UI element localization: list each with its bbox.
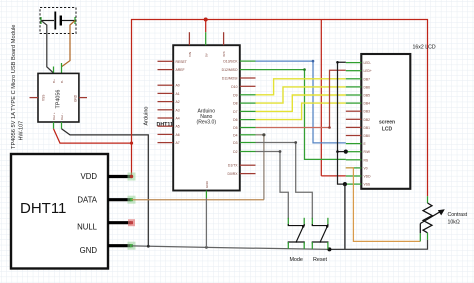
svg-text:Out -: Out -	[60, 113, 64, 120]
svg-text:screen: screen	[379, 119, 395, 125]
wire battery- to TP4056 B- (orange)	[62, 21, 76, 67]
wire pot bottom to ground bus (black)	[329, 240, 427, 250]
pushbutton S1 Mode	[288, 218, 304, 249]
wire battery+ to TP4056 B+ (black)	[41, 21, 54, 74]
svg-text:Out +: Out +	[52, 112, 56, 120]
wire LCD LED- to ground rail (black)	[336, 61, 346, 184]
label Reset	[313, 257, 328, 263]
svg-text:D2: D2	[233, 150, 237, 154]
label Contrast 10k	[448, 212, 468, 226]
pins U4 left leads	[346, 61, 372, 187]
wire arduino GND to ground bus (grey)	[205, 198, 207, 247]
svg-text:V0: V0	[364, 166, 368, 170]
label 16x2 LCD	[413, 45, 436, 51]
pushbutton S2 Reset	[312, 218, 328, 249]
svg-text:B-: B-	[60, 80, 64, 83]
label DHT11 (part label near A6)	[157, 122, 174, 128]
display U4 16x2 LCD	[361, 54, 410, 189]
module label text TP4056	[11, 25, 24, 149]
svg-text:D13/SCK: D13/SCK	[223, 60, 238, 64]
svg-text:VSS: VSS	[364, 183, 371, 187]
node DHT11 GND (green pad)	[128, 242, 136, 250]
node DHT11 VDD (green pad)	[128, 173, 136, 181]
svg-text:RS: RS	[364, 158, 369, 162]
junction LCD VSS (black dot)	[343, 182, 347, 249]
svg-text:D9: D9	[233, 93, 237, 97]
potentiometer R1 contrast 10k	[420, 196, 445, 240]
wire TP4056 Out- to ground (black)	[62, 129, 149, 246]
svg-text:B+: B+	[52, 79, 56, 83]
label Mode	[289, 257, 303, 263]
node DHT11 DATA (green pad)	[128, 196, 136, 204]
svg-text:(Rev3.0): (Rev3.0)	[197, 120, 217, 126]
svg-text:TP4056: TP4056	[56, 90, 62, 109]
svg-text:A4: A4	[176, 117, 180, 121]
svg-text:A5: A5	[176, 125, 180, 129]
junction TP4056 Out- / DHT11 GND	[147, 245, 150, 248]
wire DHT11 DATA to Arduino D4 (orange/brown)	[132, 133, 266, 200]
svg-text:Contrast: Contrast	[448, 212, 468, 218]
svg-text:D12/MISO: D12/MISO	[222, 68, 238, 72]
svg-text:D5: D5	[233, 126, 237, 130]
ground bus bottom (grey)	[132, 246, 330, 250]
svg-text:D8: D8	[233, 102, 237, 106]
svg-text:LED+: LED+	[364, 69, 372, 73]
svg-text:D10: D10	[231, 85, 237, 89]
pin U1 3V3 (top)	[222, 32, 226, 57]
wire D3 to Reset switch (grey)	[256, 141, 313, 219]
junction VCC/DHT11 VDD (red dot)	[130, 142, 133, 145]
svg-text:A1: A1	[176, 92, 180, 96]
svg-text:3V3: 3V3	[222, 51, 226, 57]
svg-text:VSS: VSS	[42, 95, 46, 101]
svg-text:A7: A7	[176, 141, 180, 145]
svg-text:10kΩ: 10kΩ	[448, 220, 460, 226]
battery BT1	[40, 8, 76, 34]
pin U1 VIN (top)	[188, 32, 192, 57]
svg-text:D11/MOSI: D11/MOSI	[222, 77, 238, 81]
svg-text:A0: A0	[176, 84, 180, 88]
junction arduino GND / ground bus	[205, 246, 208, 249]
sensor U3 DHT11	[11, 154, 132, 269]
pin U1 GND (bottom, connected)	[205, 180, 209, 198]
svg-text:DB5: DB5	[364, 94, 371, 98]
svg-text:DB3: DB3	[364, 110, 371, 114]
svg-text:DB7: DB7	[364, 77, 371, 81]
svg-text:RESET: RESET	[176, 60, 187, 64]
svg-text:DB1: DB1	[364, 126, 371, 130]
svg-text:DB4: DB4	[364, 102, 371, 106]
svg-text:A6: A6	[176, 133, 180, 137]
svg-text:Mode: Mode	[289, 257, 303, 263]
svg-text:LCD: LCD	[382, 126, 393, 132]
svg-text:D1/TX: D1/TX	[228, 164, 238, 168]
svg-text:DB2: DB2	[364, 118, 371, 122]
wire D12 to LCD RS (green)	[256, 68, 346, 159]
svg-text:DHT11: DHT11	[20, 200, 66, 217]
svg-text:R/W: R/W	[364, 150, 371, 154]
power bus 5V (red)	[132, 20, 428, 197]
svg-text:TP4056 5V 1A TYPE C Micro USB: TP4056 5V 1A TYPE C Micro USB Board Modu…	[11, 25, 17, 149]
charger module U2 TP4056	[30, 63, 88, 129]
wire D5 to LCD LED+ (salmon red)	[256, 70, 346, 129]
wire D7 to LCD DB5 (yellow)	[256, 95, 346, 111]
svg-text:HW-107: HW-107	[18, 121, 24, 141]
junction 5V/arduino (red dot)	[204, 18, 208, 22]
pins U1 right leads	[222, 60, 256, 177]
svg-text:Reset: Reset	[313, 257, 328, 263]
svg-text:16x2 LCD: 16x2 LCD	[413, 45, 436, 51]
svg-text:GND: GND	[80, 246, 98, 255]
svg-text:NULL: NULL	[77, 223, 98, 232]
junction ground bus (black dot)	[327, 247, 331, 251]
svg-text:Arduino: Arduino	[144, 107, 150, 126]
svg-text:VDD: VDD	[364, 175, 372, 179]
svg-text:D7: D7	[233, 110, 237, 114]
svg-text:DB0: DB0	[364, 134, 371, 138]
svg-text:A2: A2	[176, 100, 180, 104]
svg-text:LED-: LED-	[364, 61, 372, 65]
svg-text:AREF: AREF	[176, 68, 185, 72]
pins U1 left RESET AREF A0-A7 (maroon stubs)	[158, 60, 187, 145]
svg-text:D4: D4	[233, 133, 237, 137]
wire D8 to LCD DB6 (yellow)	[256, 87, 346, 103]
svg-text:DB6: DB6	[364, 85, 371, 89]
svg-text:D0/RX: D0/RX	[228, 172, 239, 176]
label Arduino (rotated part label)	[144, 107, 150, 126]
svg-text:VDD: VDD	[81, 172, 98, 181]
wire D6 to LCD DB4 (yellow)	[256, 103, 346, 120]
pin U1 5V (top, connected)	[204, 32, 208, 57]
svg-text:GND: GND	[74, 94, 78, 102]
wire LCD R/W tie to ground (black)	[336, 150, 348, 154]
mcu U1 Arduino Nano	[173, 45, 240, 190]
svg-text:A3: A3	[176, 108, 180, 112]
svg-text:DHT11: DHT11	[157, 122, 174, 128]
svg-text:VIN: VIN	[188, 52, 192, 57]
svg-text:D6: D6	[233, 118, 237, 122]
svg-text:GND: GND	[205, 180, 209, 188]
wire D13 to LCD E (blue)	[256, 60, 346, 143]
node DHT11 NULL unconnected (red pad)	[128, 219, 135, 226]
wire D9 to LCD DB7 (yellow)	[256, 79, 346, 95]
svg-text:D3: D3	[233, 141, 237, 145]
wire D2 to Mode switch (grey)	[256, 150, 289, 219]
svg-text:DATA: DATA	[77, 195, 97, 204]
wire LCD V0 to potentiometer wiper (orange)	[346, 168, 421, 242]
wire TP4056 Out+ to node VCC (red)	[54, 129, 132, 143]
